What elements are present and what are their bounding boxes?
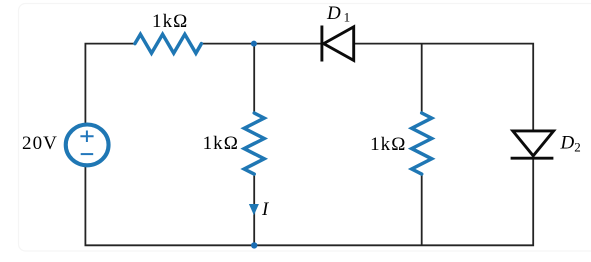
wire R3 to bottom wire [421,174,423,246]
svg-text:1kΩ: 1kΩ [152,11,188,32]
node A junction dot [251,41,257,47]
voltage source minus sign [81,153,94,155]
diode D2 triangle [513,131,554,156]
resistor R2 1kOhm vertical middle [244,113,264,174]
diode D2 cathode bar [511,157,554,160]
diode D1 cathode bar [320,26,323,62]
diode D1 triangle [324,27,354,61]
svg-text:1kΩ: 1kΩ [370,134,406,155]
wire R1 to node A [201,43,254,45]
svg-text:20V: 20V [22,133,58,154]
node B junction dot [251,242,257,248]
wire branch3 top (T junction to R3) [421,44,423,114]
svg-text:1kΩ: 1kΩ [203,133,239,154]
current arrow I [249,204,259,215]
voltage source plus sign [80,131,93,143]
wire node A down to R2 [253,44,255,114]
wire left vertical below source [85,166,254,245]
wire D1 to top-right corner then down to D2 [354,44,534,131]
resistor R3 1kOhm vertical right [412,113,432,174]
svg-text:1: 1 [344,10,351,25]
wire R2 to node B (carries current arrow) [253,174,255,246]
wire node A to D1 cathode [254,43,322,45]
resistor R1 1kOhm horizontal [135,34,202,53]
voltage source V1 circle [66,124,109,165]
wire top-left corner (R1 to source via corner) [85,44,135,124]
svg-text:D: D [560,132,575,153]
svg-text:D: D [326,3,341,24]
svg-text:2: 2 [574,140,581,155]
wire bottom (node B to right corner) [254,158,533,245]
